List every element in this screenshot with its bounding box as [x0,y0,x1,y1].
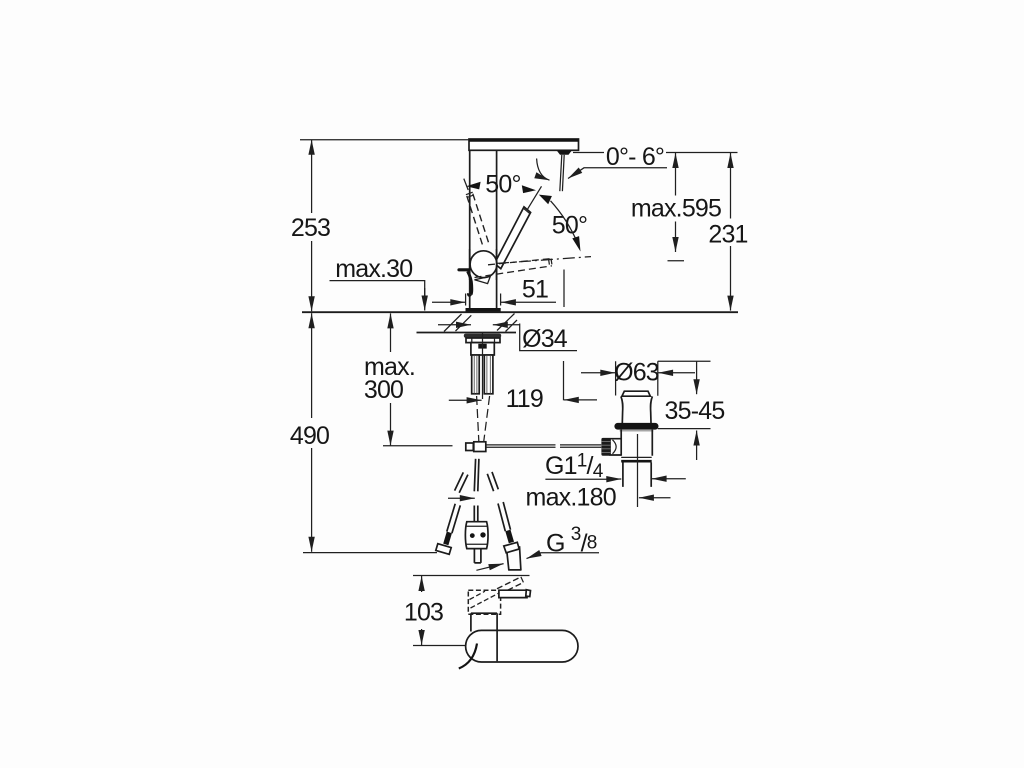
body edge through capsule [496,631,498,661]
O34 label box leader [520,324,577,351]
pop-up rod hook bottom [459,644,477,669]
left hose segment 1 [455,472,468,492]
center hose segment 1 [474,459,479,492]
dashed lever lowered position [475,259,552,278]
top extension line (spout height reference) [300,139,469,141]
solid lever (raised 50 deg) [495,207,531,269]
35-45 upper arrow [696,361,698,394]
dimension max.595 line [675,153,677,196]
svg-text:119: 119 [506,385,543,413]
check valve barrel [465,522,488,549]
right hose segment 2 [498,502,511,531]
G1 1/4 underline leader arrow [545,478,621,480]
dimension 103 line [421,576,423,592]
mounting nut [466,338,500,343]
drain pull hook handle on body [459,268,469,271]
right hose hex end [504,542,519,553]
svg-text:Ø34: Ø34 [522,325,568,353]
svg-text:300: 300 [364,376,403,404]
svg-text:103: 103 [404,599,443,627]
35-45 lower arrow [696,431,698,461]
side view body column [471,613,497,631]
svg-text:Ø63: Ø63 [614,359,659,387]
490 bottom reference line [303,552,437,554]
svg-text:231: 231 [708,221,747,249]
aerator extension line upper [563,270,565,308]
spout swivel arc 0-6 [537,159,550,181]
svg-text:51: 51 [522,276,548,304]
svg-text:max.30: max.30 [335,255,412,283]
dashed lever up-left position [467,194,490,248]
second arc start arrowhead [539,195,552,205]
basin rim capsule outline [466,630,578,662]
drain coupling lines [621,456,652,458]
0-6 deg dimension line segments [573,152,738,154]
dimension 490 line [311,313,313,418]
aerator extension line lower [563,361,565,400]
dashed lever axis extension [464,179,468,190]
drain funnel body [621,396,653,423]
dimension 231 line [730,153,732,219]
dimension 119 arrows [449,399,482,401]
dashed lever cap [466,192,474,197]
aerator outlet [557,150,573,155]
side view dashed raised handle [497,577,523,594]
second arc end arrowhead [572,236,580,251]
103 top extension line [413,575,530,577]
drain side port [610,439,621,455]
junction block main [474,442,486,452]
shank block [471,343,494,355]
lever end cap line [523,208,530,214]
left supply pipe [472,355,480,394]
dimension O34 arrows [438,324,471,326]
right hose segment 1 [487,472,498,491]
35-45 bottom extension line [658,428,711,430]
counter top line [302,311,738,313]
dimension max.300 line [390,313,392,352]
svg-text:490: 490 [290,422,329,450]
svg-text:max.180: max.180 [526,484,616,512]
side view dashed cartridge block [468,590,500,614]
max.300 bottom extension line [383,445,453,447]
svg-text:max.595: max.595 [631,195,721,223]
svg-text:0°- 6°: 0°- 6° [606,143,664,171]
O63 extension lines [616,361,658,396]
ball joint [470,251,497,278]
drain centerline [637,434,639,507]
counter bottom line [417,332,517,334]
body edges over ball [470,249,497,280]
lever axis extension [528,186,542,209]
faucet centerline through shank [482,333,484,399]
svg-text:253: 253 [291,214,330,242]
0-6 leader polyline with arrow [568,168,667,179]
G 3/8 leader underline and arrow [527,553,600,559]
faucet body column [470,150,497,308]
pull rod knurled knob [601,438,610,456]
O63 arrows [581,372,615,374]
lowered lever axis dash-dot extension [497,257,591,264]
drain tailpipe [623,463,651,487]
barrel dots [470,533,475,538]
max.30 leader underline and drop arrow [330,281,425,296]
left hose crimp fitting [443,532,452,546]
G1 1/4 right arrow [652,478,686,480]
center hose end pipe [474,549,481,563]
svg-text:35-45: 35-45 [665,397,725,425]
faucet spout top bar [469,139,579,150]
svg-text:50°: 50° [552,212,587,240]
103 bottom extension line [413,645,500,647]
drain seal flange [614,423,658,430]
counter hatching [444,314,517,332]
dimension 51 arrows [432,301,465,303]
side view solid lever horizontal [499,590,527,597]
faucet base plinth [466,308,501,312]
35-45 top extension line [658,360,711,362]
shank block detail [478,344,486,349]
junction block small [466,443,474,451]
center hose segment 2 [474,506,478,522]
right supply pipe [484,355,493,394]
pop-up drain cap [622,391,650,396]
left hose segment 2 [447,504,461,533]
right hose crimp fitting [505,530,514,544]
G 3/8 lower arrow [476,564,503,571]
max.180 arrow [639,497,671,499]
lowered lever cap [549,259,552,265]
right hose threaded end pipe [507,546,521,570]
50 deg arrowhead right at lever axis [522,185,536,193]
drain body below seal [621,430,652,456]
water stream lines [560,155,564,191]
lever end cap [526,590,531,597]
dimension 253 line [311,140,313,213]
dimension 51 extension lines [466,294,501,306]
50 deg second arc [551,201,578,244]
hose centerline dash-dot to junction [477,396,479,441]
pop-up pull rod horizontal [486,445,602,447]
svg-text:50°: 50° [485,171,520,199]
50 deg arrowhead left [466,182,480,190]
triangle marker on body [475,276,491,283]
shank washer below counter [464,334,501,338]
max.180 left arrow at hose [448,497,475,499]
max.595 termination tick [668,260,685,262]
left hose hex end [436,544,451,555]
